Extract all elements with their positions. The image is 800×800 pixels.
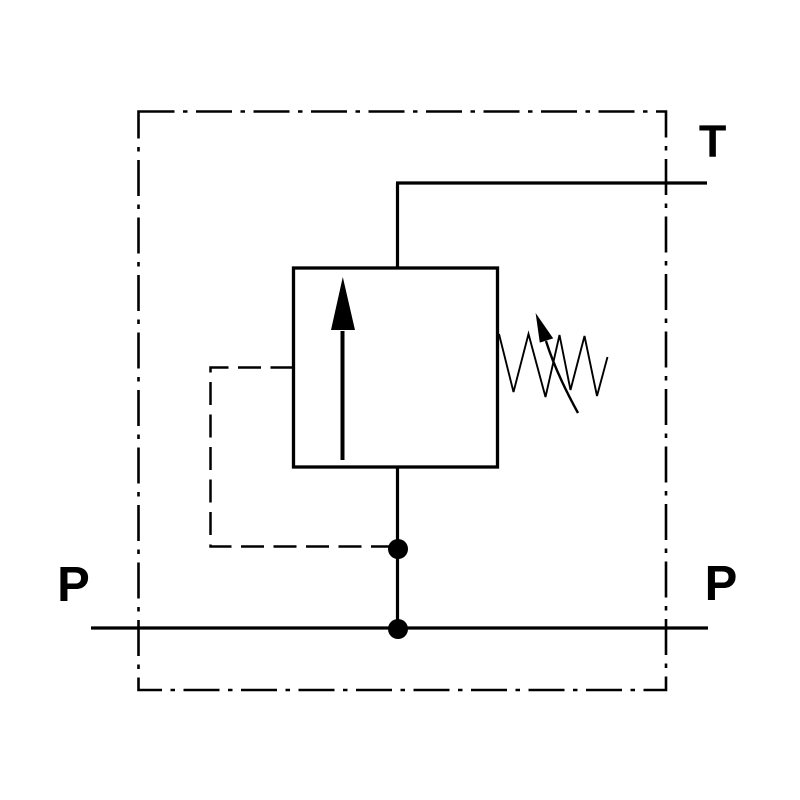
- wire: horizontal T line: [396, 181, 707, 184]
- svg-text:P: P: [57, 558, 90, 612]
- adjustment arrow across spring: [536, 313, 578, 413]
- wire: valve bottom to P line: [396, 467, 399, 630]
- wire: vertical from valve top to T line: [396, 183, 399, 269]
- junction node B (P line tap dot): [388, 619, 408, 639]
- flow arrow inside valve: [331, 277, 355, 460]
- enclosure boundary (dash-dot manifold box): [139, 112, 667, 691]
- svg-text:T: T: [699, 116, 727, 167]
- adjustable spring: [499, 334, 608, 397]
- junction node A (pilot tap dot): [388, 539, 408, 559]
- valve body (relief valve envelope): [294, 268, 498, 467]
- wire: P line: [91, 626, 708, 629]
- svg-text:P: P: [705, 557, 738, 611]
- pilot line (dashed) from valve side to node A: [211, 368, 399, 547]
